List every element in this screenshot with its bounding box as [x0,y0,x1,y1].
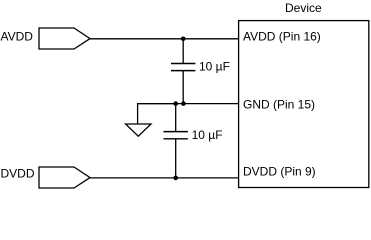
svg-text:GND (Pin 15): GND (Pin 15) [243,97,315,111]
wire C2 bottom lead [175,139,177,178]
input terminal AVDD flag [39,28,90,49]
capacitor C1 plates [171,64,195,71]
svg-text:10 µF: 10 µF [192,128,223,142]
input terminal DVDD flag [39,167,90,188]
svg-text:AVDD: AVDD [1,30,34,44]
ground symbol [126,124,151,136]
device U1 box [239,21,369,188]
svg-text:10 µF: 10 µF [199,59,230,73]
junction dot node AVDD [181,37,186,42]
wire C1 top lead [182,39,184,64]
wire ground branch [138,104,176,124]
wire DVDD net [90,177,239,179]
wire GND net horizontal [138,103,239,105]
svg-text:Device: Device [285,1,322,15]
wire C1 bottom lead [182,71,184,104]
junction dot node GND left [173,101,178,106]
wire AVDD net [90,38,239,40]
svg-text:AVDD (Pin 16): AVDD (Pin 16) [243,30,321,44]
junction dot node GND right [181,101,186,106]
wire C2 top lead [175,104,177,132]
svg-text:DVDD: DVDD [1,167,35,181]
svg-text:DVDD (Pin 9): DVDD (Pin 9) [243,164,316,178]
capacitor C2 plates [164,132,188,139]
junction dot node DVDD [173,176,178,181]
